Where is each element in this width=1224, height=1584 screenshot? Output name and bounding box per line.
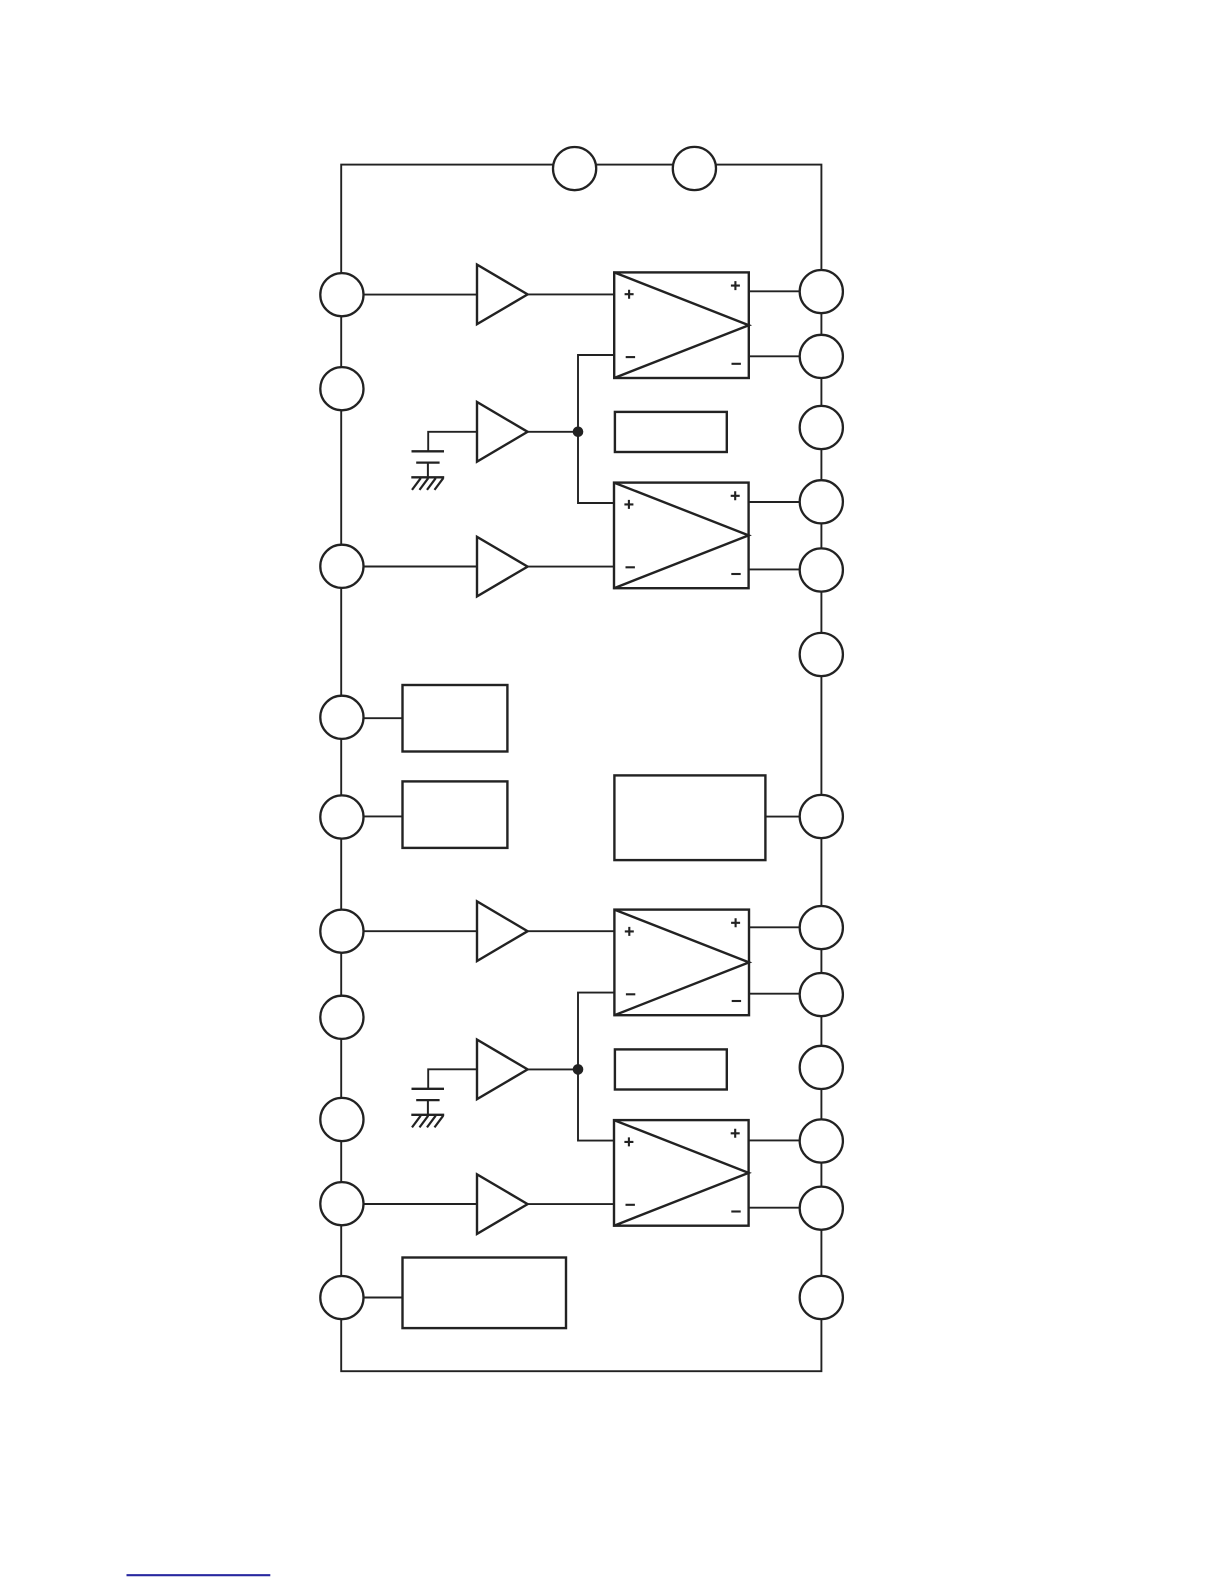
pin L3 — [320, 545, 363, 588]
wire: amp U2 "+" output to pin R4 — [749, 501, 822, 503]
U3 noninverting input "+" label — [625, 927, 634, 936]
wire: amp U4 "-" output to pin R12 — [749, 1207, 822, 1209]
U1 inverting output "-" label — [732, 363, 741, 365]
wire: amp U1 "-" output to pin R2 — [749, 355, 822, 357]
pin L4 — [320, 696, 363, 739]
ground symbol at node B reference — [411, 1115, 444, 1128]
bottom-left block — [403, 1258, 567, 1329]
wire: pin L1 to buffer A1 input — [342, 294, 478, 296]
U4 noninverting output "+" label — [731, 1129, 740, 1138]
pin T2 — [673, 147, 716, 190]
pin R11 — [800, 1119, 843, 1162]
wire: ref buffer A3 input from capacitor — [428, 432, 477, 451]
wire: pin L10 to bottom-left block — [342, 1297, 403, 1299]
wire: amp U3 "+" output to pin R8 — [749, 926, 821, 928]
U4 inverting output "-" label — [731, 1210, 740, 1212]
diff amp U1 box — [614, 272, 749, 378]
U3 inverting input "-" label — [626, 993, 635, 995]
wire: buffer B1 output to amp U3 "+" input — [527, 930, 614, 932]
wire: buffer A1 output to amp U1 "+" input — [527, 293, 614, 295]
pin R2 — [800, 335, 843, 378]
wire: amp U4 "+" output to pin R11 — [749, 1139, 822, 1141]
wire: mid-right block to pin R7 — [765, 816, 821, 818]
pin R1 — [800, 270, 843, 313]
mid small block A — [615, 412, 727, 452]
wire: ref buffer A3 output to node A — [527, 431, 578, 433]
buffer B3 (reference) — [477, 1040, 528, 1100]
buffer B1 — [477, 901, 528, 961]
pin T1 — [553, 147, 596, 190]
diff amp U3 box — [614, 910, 749, 1016]
U4 inverting input "-" label — [626, 1204, 635, 1206]
U4 noninverting input "+" label — [624, 1137, 633, 1146]
mid-right block — [614, 775, 765, 860]
pin R5 — [800, 548, 843, 591]
U2 inverting input "-" label — [626, 566, 635, 568]
pin L9 — [320, 1182, 363, 1225]
wire: ref buffer B3 output to node B — [527, 1068, 578, 1070]
U2 inverting output "-" label — [731, 573, 740, 575]
pin R4 — [800, 480, 843, 523]
wire: pin L4 to left block 1 — [342, 717, 403, 719]
diff amp U2 box — [614, 483, 749, 589]
decoupling capacitor at node A reference — [412, 451, 445, 477]
wire: pin L3 to buffer A2 input — [342, 566, 478, 568]
wire: amp U3 "-" output to pin R9 — [749, 993, 821, 995]
diff amp U4 box — [614, 1120, 749, 1226]
pin L7 — [320, 996, 363, 1039]
pin R8 — [800, 906, 843, 949]
pin R12 — [800, 1187, 843, 1230]
wire: buffer A2 output to amp U2 "-" input — [527, 566, 614, 568]
wire: buffer B2 output to amp U4 "-" input — [527, 1203, 614, 1205]
node A junction dot — [573, 427, 584, 438]
left block 1 — [403, 685, 508, 752]
pin L5 — [320, 795, 363, 838]
wire: pin L6 to buffer B1 input — [342, 930, 478, 932]
pin L10 — [320, 1276, 363, 1319]
wire: amp U2 "-" output to pin R5 — [749, 568, 822, 570]
pin L8 — [320, 1098, 363, 1141]
U2 noninverting output "+" label — [731, 491, 740, 500]
U1 noninverting input "+" label — [625, 290, 634, 299]
decoupling capacitor at node B reference — [412, 1089, 445, 1115]
pin L2 — [320, 367, 363, 410]
wire: amp U3 "-" input riser through node B to amp U4 "+" input — [578, 993, 614, 1141]
pin L1 — [320, 273, 363, 316]
wire: pin L5 to left block 2 — [342, 815, 403, 817]
U2 noninverting input "+" label — [624, 500, 633, 509]
U1 inverting input "-" label — [626, 356, 635, 358]
pin R7 — [800, 795, 843, 838]
buffer B2 — [477, 1174, 528, 1234]
U3 noninverting output "+" label — [731, 918, 740, 927]
wire: pin L9 to buffer B2 input — [342, 1203, 478, 1205]
pin R3 — [800, 406, 843, 449]
pin R13 — [800, 1276, 843, 1319]
wire: amp U1 "-" input riser through node A to amp U2 "+" input — [578, 355, 614, 503]
pin R10 — [800, 1046, 843, 1089]
wire: amp U1 "+" output to pin R1 — [749, 290, 822, 292]
U3 inverting output "-" label — [732, 1000, 741, 1002]
node B junction dot — [573, 1064, 584, 1075]
pin L6 — [320, 910, 363, 953]
left block 2 — [403, 781, 508, 848]
IC package boundary — [341, 165, 821, 1372]
pin R9 — [800, 973, 843, 1016]
ground symbol at node A reference — [411, 477, 444, 490]
buffer A2 — [477, 537, 528, 597]
pin R6 — [800, 633, 843, 676]
U1 noninverting output "+" label — [731, 281, 740, 290]
mid small block B — [615, 1049, 727, 1089]
buffer A3 (reference) — [477, 402, 528, 462]
footer hyperlink underline — [127, 1574, 271, 1576]
buffer A1 — [477, 265, 528, 325]
wire: ref buffer B3 input from capacitor — [428, 1069, 477, 1088]
